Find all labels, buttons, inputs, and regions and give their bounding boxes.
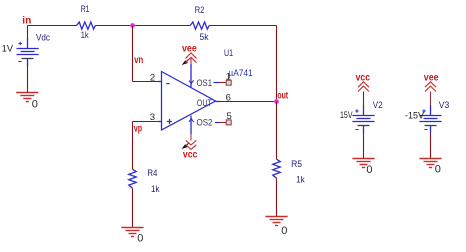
V3 bottom dark plate (425, 125, 437, 127)
op-amp pin 3 stub (158, 121, 162, 123)
svg-text:0: 0 (137, 232, 143, 244)
svg-text:OS2: OS2 (197, 117, 213, 127)
power symbol vee above op-amp (186, 53, 197, 63)
op-amp pin 2 stub (158, 81, 162, 83)
svg-text:0: 0 (435, 163, 441, 175)
svg-text:vn: vn (134, 55, 143, 66)
wire R2 right to out column (209, 25, 276, 27)
wire junction to R2 left (133, 25, 191, 27)
ground 0 under V3 (419, 159, 441, 168)
svg-text:2: 2 (150, 72, 155, 83)
wire R4 bottom to ground (132, 188, 134, 227)
power symbol vee above V3 (425, 82, 436, 92)
wire out junction down to R5 (276, 102, 278, 160)
wire R5 bottom to ground (276, 178, 278, 216)
svg-text:1k: 1k (296, 175, 305, 186)
svg-text:Vdc: Vdc (36, 32, 50, 43)
op-amp output pin 6 stub (216, 101, 221, 103)
ground 0 under V2 (352, 159, 374, 168)
svg-text:1k: 1k (151, 184, 160, 195)
voltage source V1 Vdc battery symbol (17, 38, 39, 66)
svg-text:R2: R2 (195, 5, 205, 16)
wire in node: source V1 top to R1 left (28, 25, 77, 27)
ground 0 under V1 (16, 93, 38, 102)
resistor R4 (129, 169, 136, 188)
svg-text:OS1: OS1 (197, 78, 213, 88)
svg-text:0: 0 (281, 225, 287, 237)
op-amp plus input mark (167, 119, 172, 124)
svg-text:0: 0 (366, 164, 372, 176)
svg-text:1k: 1k (81, 30, 89, 41)
wire vn vertical from junction (132, 26, 134, 82)
svg-text:1V: 1V (2, 43, 14, 54)
wire R1 right to junction (95, 25, 132, 27)
junction dot at out node (274, 99, 280, 105)
voltage source V2 battery symbol (352, 105, 374, 134)
svg-text:R5: R5 (291, 159, 302, 170)
voltage source V3 battery symbol (419, 105, 441, 134)
junction dot at vn column (130, 23, 136, 29)
svg-text:in: in (22, 15, 31, 26)
svg-text:R4: R4 (147, 168, 157, 179)
resistor R1 (77, 22, 96, 29)
svg-text:vcc: vcc (183, 150, 198, 161)
OS2 pin 5 wire stub (215, 122, 221, 124)
resistor R2 (190, 22, 209, 29)
wire V1 bottom to ground (27, 66, 29, 93)
wire vp corner to op-amp pin 3 (133, 121, 159, 123)
pin 5 open terminal square (226, 120, 231, 125)
op-amp U1 triangle (162, 72, 216, 131)
OS2 arrow tick on bottom edge (189, 119, 194, 123)
op-amp V- pin 4 stub to vcc (190, 116, 192, 134)
V2 bottom dark plate (358, 125, 370, 127)
svg-text:-15V: -15V (405, 110, 425, 121)
wire V2 bottom to ground (363, 134, 365, 159)
svg-text:0: 0 (32, 98, 38, 110)
svg-text:5: 5 (227, 111, 232, 122)
pin 4 black tick (182, 144, 188, 149)
svg-text:U1: U1 (224, 48, 233, 59)
OS1 arrow tick on top edge (189, 80, 194, 84)
pin 1 open terminal square (226, 80, 231, 85)
svg-text:out: out (277, 90, 288, 101)
svg-text:R1: R1 (81, 4, 90, 15)
wire vp vertical down to R4 (132, 122, 134, 170)
power symbol vcc above V2 (358, 82, 369, 92)
V1 bottom dark plate (22, 58, 34, 60)
svg-text:V3: V3 (439, 100, 450, 111)
pin 7 black tick (182, 60, 188, 65)
wire V1 top stub (27, 26, 29, 39)
ground 0 under R5 (265, 217, 287, 226)
svg-text:µA741: µA741 (228, 68, 252, 78)
wire output to out junction (221, 101, 277, 103)
wire feedback vertical down to out junction (276, 26, 278, 102)
op-amp minus input mark (166, 83, 169, 85)
wire V3 bottom to ground (430, 134, 432, 159)
svg-text:3: 3 (150, 112, 155, 123)
ground 0 under R4 (121, 228, 143, 237)
wire vcc to V2 top (363, 92, 365, 106)
resistor R5 (273, 159, 280, 178)
svg-text:OUT: OUT (197, 98, 212, 108)
svg-text:V2: V2 (373, 100, 383, 111)
OS1 pin 1 wire stub (214, 82, 221, 84)
wire vn corner to op-amp pin 2 (133, 81, 159, 83)
svg-text:vcc: vcc (356, 72, 371, 83)
svg-text:vp: vp (134, 123, 142, 134)
svg-text:vee: vee (182, 44, 197, 55)
op-amp V+ pin 7 stub from vee (190, 58, 192, 64)
svg-text:5k: 5k (200, 32, 209, 43)
svg-text:vee: vee (424, 72, 439, 83)
power symbol vcc below op-amp (186, 140, 197, 149)
svg-text:15V: 15V (340, 110, 353, 121)
wire vee to V3 top (430, 92, 432, 106)
